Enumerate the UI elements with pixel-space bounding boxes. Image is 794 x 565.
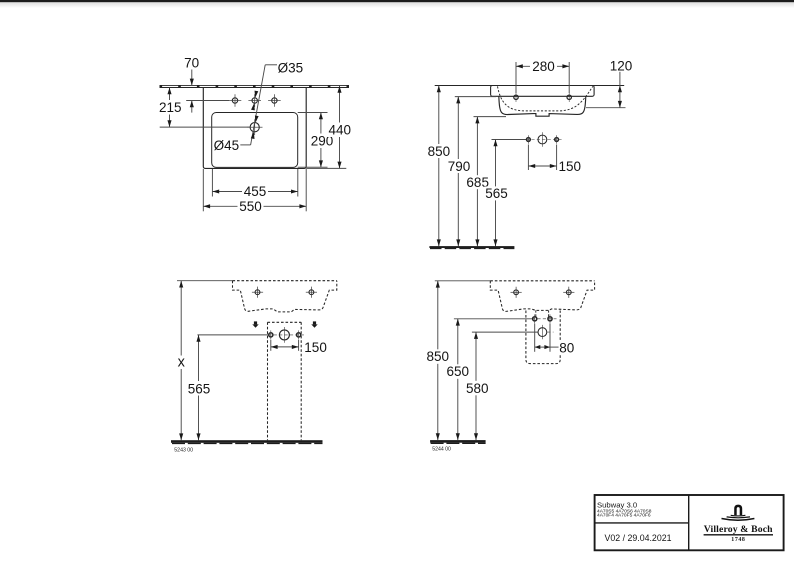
svg-text:V02 / 29.04.2021: V02 / 29.04.2021 xyxy=(604,533,671,543)
svg-text:850: 850 xyxy=(428,144,451,159)
svg-text:Ø45: Ø45 xyxy=(214,138,240,153)
dimension 455 (top view) xyxy=(212,169,297,199)
mounting bolt right (install view right) xyxy=(548,314,552,323)
trap centre circle (install view left) xyxy=(279,327,289,343)
label Ø35 with diameter leader xyxy=(251,61,304,145)
dimension 150 (front view) xyxy=(528,145,581,174)
svg-text:790: 790 xyxy=(448,159,471,174)
page top bar xyxy=(0,0,794,2)
mounting bolt right (front view) xyxy=(555,135,559,144)
top reference line (install view right) xyxy=(435,280,491,282)
svg-text:650: 650 xyxy=(447,364,470,379)
pedestal hidden outline (install view left) xyxy=(268,322,302,440)
svg-text:x: x xyxy=(178,355,186,371)
floor line (front view) xyxy=(429,246,514,248)
svg-text:5244 00: 5244 00 xyxy=(432,447,451,453)
svg-text:550: 550 xyxy=(239,199,262,214)
dimension 650 (install view right) xyxy=(446,319,470,440)
dimension 280 (front view) xyxy=(516,59,569,93)
dimension 150 (install view left) xyxy=(271,340,327,355)
bowl hidden contour (front view) xyxy=(498,86,593,111)
svg-text:215: 215 xyxy=(159,100,182,115)
dimension 440 (top view) xyxy=(306,85,352,168)
svg-text:150: 150 xyxy=(559,159,582,174)
svg-text:280: 280 xyxy=(532,59,555,74)
dimension 290 (top view) xyxy=(298,113,334,168)
tap hole left (top view) xyxy=(229,94,242,107)
dimension 565 (front view) xyxy=(484,140,508,247)
svg-text:Villeroy & Boch: Villeroy & Boch xyxy=(704,524,773,535)
siphon cover hidden outline (install view right) xyxy=(526,311,560,364)
trap centre circle (install view right) xyxy=(538,325,547,339)
trap centre circle (front view) xyxy=(538,132,547,146)
bolt centre line (install view left) xyxy=(197,334,305,336)
Villeroy & Boch logo mark xyxy=(722,505,755,521)
svg-text:120: 120 xyxy=(610,58,633,73)
svg-text:1748: 1748 xyxy=(731,537,745,543)
drain hole (top view) xyxy=(247,119,263,135)
basin bowl outline (top view) xyxy=(212,113,298,168)
fixing hole right (front view) xyxy=(567,93,571,102)
svg-text:80: 80 xyxy=(559,341,574,356)
title block frame xyxy=(595,495,784,550)
mounting bolt right (install view left) xyxy=(297,330,301,339)
svg-text:565: 565 xyxy=(188,381,211,396)
fixing hole left hidden (install view left) xyxy=(252,287,263,298)
basin outer outline (top view) xyxy=(203,88,306,169)
dimension 565 (install view left) xyxy=(187,335,211,440)
mounting bolt left (install view right) xyxy=(533,314,537,323)
trap centre line (install view right) xyxy=(472,331,554,333)
wall line (top view) xyxy=(160,85,350,87)
dimension 215 (top view) xyxy=(158,88,250,128)
tap hole centre (top view) xyxy=(248,94,261,107)
basin body (front view) xyxy=(499,96,586,116)
dimension 790 (front view) xyxy=(447,97,497,247)
fixing hole left (front view) xyxy=(514,93,518,102)
svg-text:Ø35: Ø35 xyxy=(278,61,304,76)
top reference line (install view left) xyxy=(177,280,233,282)
mounting bolt left (install view left) xyxy=(269,330,273,339)
dimension 70 (top view) xyxy=(184,56,229,113)
fixing hole right hidden (install view left) xyxy=(306,287,317,298)
mounting bolt left (front view) xyxy=(527,135,531,144)
dimension 120 (front view) xyxy=(586,58,632,108)
dimension 580 (install view right) xyxy=(465,332,489,440)
svg-text:440: 440 xyxy=(329,122,352,137)
screw direction arrow right xyxy=(311,321,317,327)
dimension x (install view left) xyxy=(175,281,189,441)
svg-text:850: 850 xyxy=(427,349,450,364)
basin hidden outline (install view right) xyxy=(490,281,594,317)
dimension 850 (front view) xyxy=(427,86,451,247)
screw direction arrow left xyxy=(252,321,258,327)
wall reference line (front view) xyxy=(435,85,625,87)
svg-text:150: 150 xyxy=(304,340,327,355)
svg-text:4A70F4 4A70F5 4A70F6: 4A70F4 4A70F5 4A70F6 xyxy=(597,513,651,519)
label Ø45 with diameter leader xyxy=(214,115,259,152)
dimension 685 (front view) xyxy=(466,117,507,247)
Villeroy & Boch wordmark xyxy=(704,524,774,543)
floor line (install view left) xyxy=(171,440,323,443)
dimension 550 (top view) xyxy=(203,169,306,214)
basin hidden outline (install view left) xyxy=(233,281,337,312)
rim front face (front view) xyxy=(491,86,594,97)
dimension 850 (install view right) xyxy=(426,281,450,440)
floor line (install view right) xyxy=(430,440,486,443)
svg-text:5243 00: 5243 00 xyxy=(174,448,193,454)
fixing hole left hidden (install view right) xyxy=(511,287,522,298)
tap hole right (top view) xyxy=(268,94,281,107)
svg-text:Subway 3.0: Subway 3.0 xyxy=(597,500,637,509)
svg-text:455: 455 xyxy=(244,184,267,199)
svg-text:70: 70 xyxy=(184,56,199,71)
fixing hole right hidden (install view right) xyxy=(563,287,574,298)
svg-text:580: 580 xyxy=(466,381,489,396)
bolt centre line (install view right) xyxy=(454,318,557,320)
dimension 80 (install view right) xyxy=(535,324,575,356)
svg-text:565: 565 xyxy=(485,186,508,201)
bolt centre line (front view) xyxy=(492,139,563,141)
